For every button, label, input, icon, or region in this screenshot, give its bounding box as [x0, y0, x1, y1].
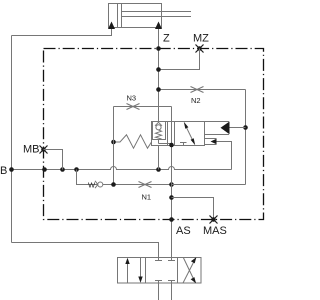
wire: pilot return along bottom to AS line	[172, 184, 246, 186]
cylinder CYL (hydraulic cylinder, top)	[109, 4, 192, 28]
junction on Z line at MZ tap	[156, 67, 161, 72]
directional valve V2 body	[118, 258, 202, 284]
svg-text:N1: N1	[142, 193, 152, 202]
drain arrow (small) into V1	[211, 139, 217, 145]
main valve V1 body	[152, 122, 205, 146]
junction B at check W branch	[74, 167, 79, 172]
wire: bottom feed to directional valve port P	[12, 243, 159, 258]
wire: N3 pilot down through valve to AS line	[171, 107, 173, 146]
wire: MAS tap	[172, 198, 214, 220]
throttle N1	[139, 182, 152, 188]
wire: V2 bottom port A	[158, 283, 160, 300]
svg-text:AS: AS	[176, 225, 191, 237]
wire B (main horizontal line with crossover hops)	[12, 167, 232, 170]
junction spring to N3 line	[111, 140, 116, 145]
wire: MB tap to B line	[44, 150, 63, 170]
manifold boundary (dash-dot box)	[44, 49, 264, 220]
svg-text:B: B	[0, 165, 7, 177]
svg-text:Z: Z	[163, 33, 170, 45]
svg-text:W: W	[88, 181, 96, 190]
svg-text:N2: N2	[191, 96, 201, 105]
wire N3 branch (horizontal)	[114, 106, 172, 108]
spring under poppet	[156, 130, 162, 144]
blocked port T in V1	[180, 143, 187, 146]
pilot arrow (large) into V1	[221, 122, 230, 135]
wire: V2 bottom port B	[171, 283, 173, 300]
port arrow into cylinder left	[108, 22, 115, 30]
test point MAS (cross on boundary)	[210, 216, 218, 224]
svg-text:MB: MB	[23, 144, 40, 156]
V2 right cell crossed arrows	[183, 258, 195, 284]
V2 left cell up arrow	[127, 261, 129, 283]
wire: MZ tap to Z line	[159, 49, 200, 70]
check valve W (seat and ball)	[95, 181, 103, 188]
junction B at boundary	[42, 167, 47, 172]
wire: drain arrow to B line riser	[217, 142, 232, 170]
wire: cylinder left port down to left rail	[12, 29, 112, 36]
V2 centre cell blocked ports	[155, 258, 175, 284]
drain arrow (small) box on V1 right	[205, 139, 217, 145]
pilot head box on V1 right	[205, 122, 230, 135]
wire: Z line to N2 pilot branch	[159, 89, 246, 91]
test point MB (cross on boundary)	[40, 146, 48, 154]
junction B at MB tap	[60, 167, 65, 172]
junction AS at boundary	[169, 217, 174, 222]
spool arrow in V1 (double headed)	[186, 126, 194, 143]
svg-text:MAS: MAS	[203, 225, 227, 237]
wire N3 branch (vertical)	[113, 107, 115, 185]
port arrow into cylinder right	[155, 22, 162, 30]
bias spring on V1 left	[114, 135, 152, 148]
wire Z: cylinder right port down into manifold	[158, 29, 160, 122]
check poppet ball in V1	[156, 125, 161, 130]
svg-text:MZ: MZ	[193, 33, 209, 45]
junction on Z line at N2 branch	[156, 87, 161, 92]
test point MZ (cross on boundary)	[196, 45, 204, 53]
wire: left rail	[11, 36, 13, 243]
wire: pilot node to V1 pilot arrow	[229, 127, 246, 129]
wire: V1 outlet down to B	[158, 146, 160, 170]
throttle N2	[191, 87, 204, 93]
junction AS at V1 drain	[169, 143, 174, 148]
junction AS at MAS tap	[169, 195, 174, 200]
svg-text:N3: N3	[127, 94, 137, 103]
junction W line and N3 line	[111, 182, 116, 187]
V2 left cell down arrow	[140, 258, 142, 280]
junction B at V1 outlet	[156, 167, 161, 172]
wire: check valve W branch	[77, 170, 172, 185]
wire AS (vertical)	[171, 145, 173, 258]
junction pilot node	[243, 125, 248, 130]
junction B at left rail	[9, 167, 14, 172]
junction W line and AS line	[169, 182, 174, 187]
wire: spring chamber to pilot drain	[159, 143, 172, 145]
check poppet seat in V1	[155, 122, 162, 126]
throttle N3	[127, 104, 140, 110]
junction: Z on boundary	[156, 46, 161, 51]
wire: pilot line down right side	[245, 90, 247, 185]
